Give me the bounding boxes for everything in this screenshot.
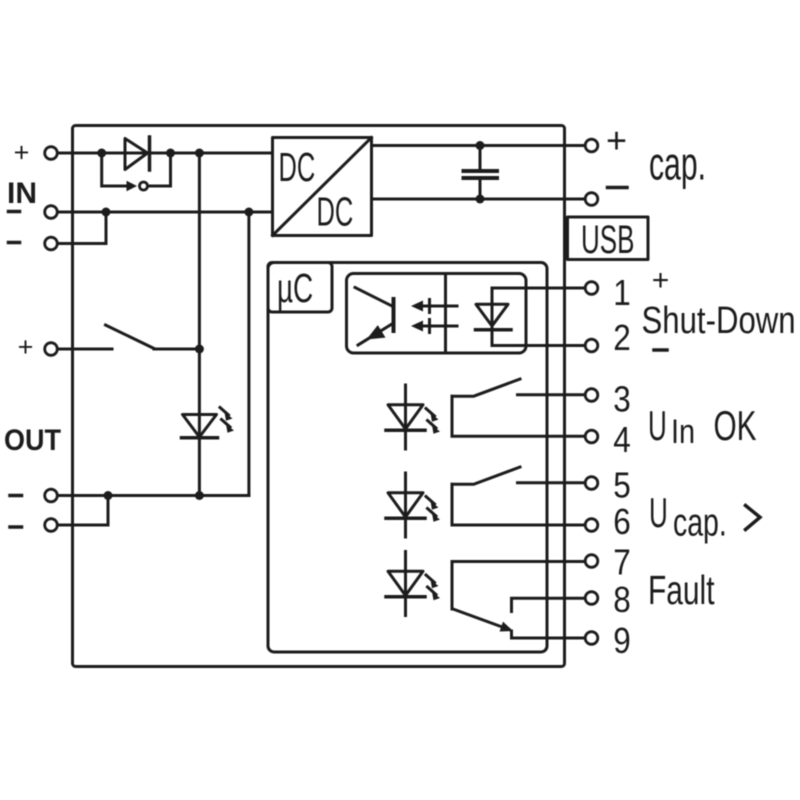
svg-text:U: U xyxy=(648,403,667,450)
svg-text:U: U xyxy=(649,490,668,537)
svg-text:5: 5 xyxy=(613,466,631,506)
svg-text:6: 6 xyxy=(613,502,631,542)
svg-text:+: + xyxy=(18,332,34,362)
svg-text:OK: OK xyxy=(714,402,757,449)
svg-text:OUT: OUT xyxy=(4,424,61,458)
svg-text:2: 2 xyxy=(613,318,631,358)
svg-text:IN: IN xyxy=(7,177,37,210)
svg-text:DC: DC xyxy=(279,145,316,191)
svg-text:4: 4 xyxy=(613,420,631,460)
svg-text:In: In xyxy=(671,412,695,451)
svg-text:+: + xyxy=(606,120,627,161)
svg-text:cap.: cap. xyxy=(673,501,727,544)
svg-text:DC: DC xyxy=(317,189,354,235)
svg-text:Fault: Fault xyxy=(648,567,715,613)
svg-text:+: + xyxy=(14,138,30,168)
svg-text:8: 8 xyxy=(613,580,631,620)
svg-text:+: + xyxy=(652,264,670,297)
svg-text:cap.: cap. xyxy=(649,139,706,190)
svg-text:µC: µC xyxy=(277,266,313,312)
svg-text:Shut-Down: Shut-Down xyxy=(642,300,796,342)
svg-text:1: 1 xyxy=(613,273,631,313)
svg-text:7: 7 xyxy=(613,543,631,583)
svg-text:9: 9 xyxy=(613,621,631,661)
svg-text:USB: USB xyxy=(581,217,634,262)
svg-text:3: 3 xyxy=(613,380,631,420)
